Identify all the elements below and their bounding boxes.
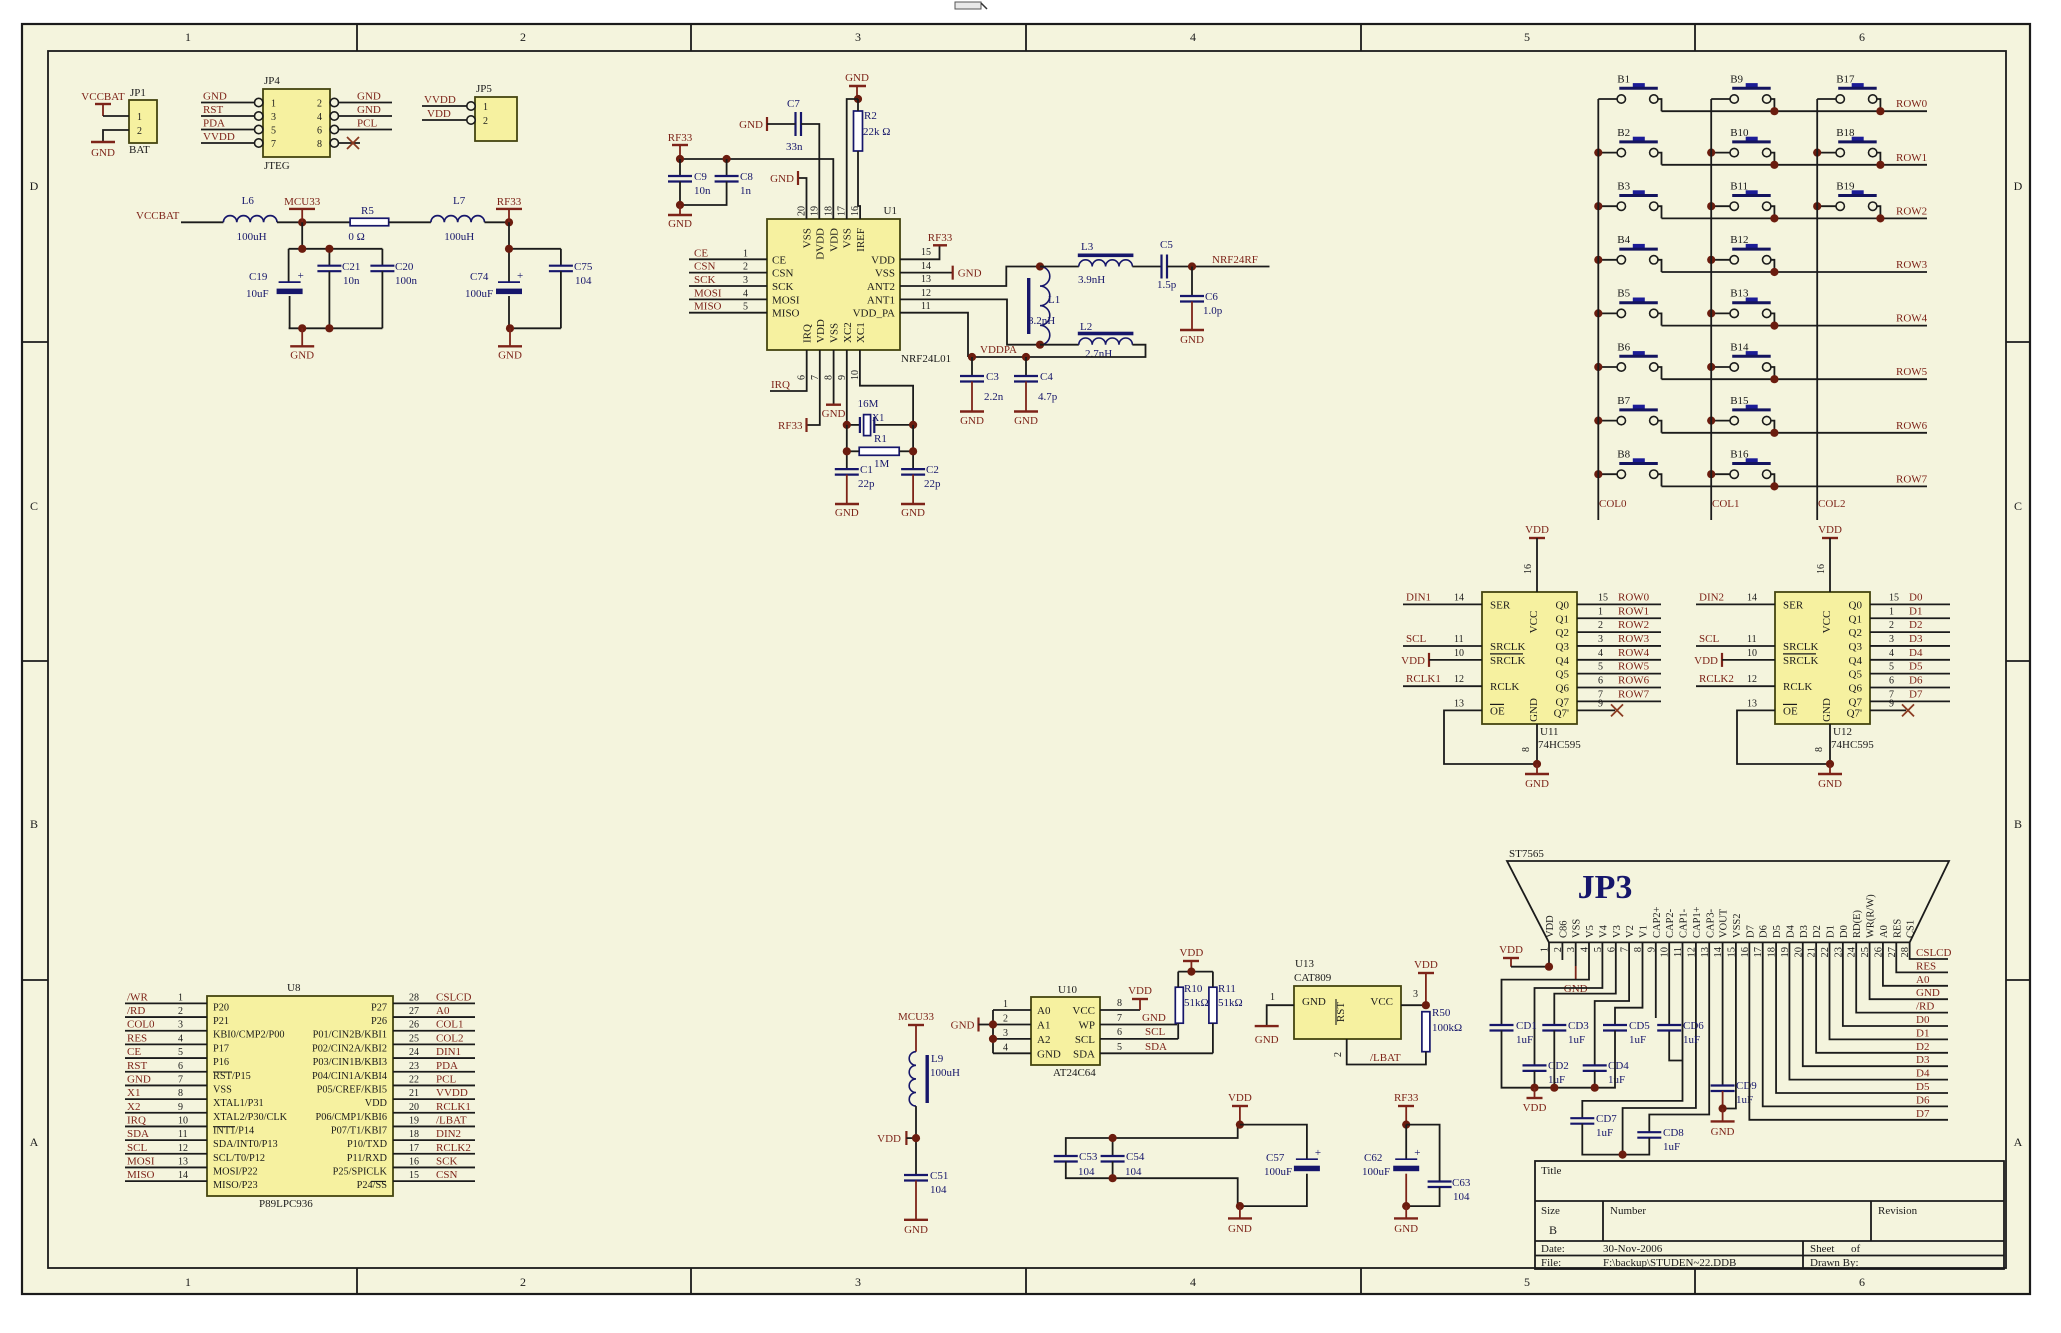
svg-text:A0: A0 (436, 1005, 450, 1017)
svg-text:RF33: RF33 (1394, 1092, 1419, 1104)
svg-text:VDD: VDD (1414, 959, 1438, 971)
capacitor C62 100uF (1362, 1147, 1420, 1178)
svg-text:SRCLK: SRCLK (1490, 641, 1526, 653)
svg-text:GND: GND (845, 72, 869, 84)
svg-text:104: 104 (1078, 1166, 1095, 1178)
wire L9 to C51 (915, 1106, 917, 1175)
wire C62 C63 bottoms (1406, 1187, 1439, 1206)
svg-text:14: 14 (1454, 592, 1464, 603)
svg-text:B1: B1 (1617, 73, 1630, 85)
svg-text:2: 2 (520, 1275, 526, 1289)
capacitor CD3 1uF (1542, 1020, 1589, 1046)
junction crystal right (909, 421, 917, 429)
IC U10 AT24C64 (1031, 984, 1100, 1079)
svg-text:CD5: CD5 (1629, 1020, 1650, 1032)
svg-text:SDA: SDA (1145, 1041, 1167, 1053)
wire ROW2 (1662, 217, 1928, 219)
net label RCLK2 at U12 pin12 (1696, 673, 1775, 686)
svg-text:SCL: SCL (1145, 1026, 1165, 1038)
net label DIN1 at U11 pin14 (1403, 591, 1482, 604)
svg-text:1: 1 (743, 248, 748, 259)
svg-text:JP3: JP3 (1578, 869, 1633, 906)
junction RF33 node (505, 218, 513, 226)
wire JP1 pin2 (103, 130, 129, 142)
svg-text:B9: B9 (1730, 73, 1743, 85)
power port MCU33 (284, 196, 321, 222)
svg-text:IRQ: IRQ (127, 1114, 146, 1126)
svg-text:COL0: COL0 (127, 1019, 155, 1031)
svg-text:GND: GND (127, 1073, 151, 1085)
wire JP3 pin14 to CD9 (1722, 942, 1724, 1085)
net label PCL U8 pin 22 (393, 1073, 475, 1085)
svg-text:PDA: PDA (203, 118, 225, 130)
svg-text:74HC595: 74HC595 (1538, 739, 1581, 751)
wire U11 Q7 to ROW7 (1577, 688, 1661, 701)
junction C6 top (1188, 262, 1196, 270)
capacitor CD7 1uF (1570, 1113, 1617, 1139)
svg-text:3: 3 (1598, 634, 1603, 645)
svg-text:14: 14 (1747, 592, 1757, 603)
svg-text:MISO: MISO (772, 308, 800, 320)
svg-text:F:\backup\STUDEN~22.DDB: F:\backup\STUDEN~22.DDB (1603, 1257, 1736, 1269)
svg-text:C57: C57 (1266, 1152, 1285, 1164)
svg-text:OE: OE (1783, 705, 1798, 717)
wire U1 pin9 XC2 to crystal (846, 350, 848, 425)
svg-text:6: 6 (1889, 676, 1894, 687)
svg-text:CSLCD: CSLCD (1916, 947, 1952, 959)
svg-text:CSLCD: CSLCD (436, 991, 472, 1003)
svg-text:1: 1 (1598, 606, 1603, 617)
wire RF33 cap bank (508, 222, 510, 282)
svg-text:3: 3 (1413, 989, 1418, 1000)
pushbutton B19 (1817, 181, 1880, 219)
svg-text:11: 11 (1747, 634, 1757, 645)
net label PDA at JP4 pin 5 (201, 118, 263, 134)
svg-text:17: 17 (409, 1143, 419, 1154)
svg-text:VOUT: VOUT (1719, 908, 1730, 938)
svg-text:COL1: COL1 (1712, 498, 1740, 510)
ground C62 block (1394, 1206, 1418, 1235)
svg-text:CAP2+: CAP2+ (1652, 906, 1663, 938)
wire CD7 CD8 bottom rail (1582, 1124, 1649, 1155)
wire MCU33 cap bank bottom rail (289, 296, 291, 328)
power port RF33 (496, 196, 522, 222)
IC U11 74HC595 (1482, 592, 1581, 752)
svg-text:U1: U1 (884, 205, 897, 217)
svg-text:C86: C86 (1558, 920, 1569, 938)
svg-text:C63: C63 (1452, 1177, 1471, 1189)
svg-text:13: 13 (1747, 698, 1757, 709)
svg-text:D: D (30, 179, 39, 193)
svg-text:VSS: VSS (842, 228, 854, 248)
svg-text:V1: V1 (1638, 925, 1649, 938)
svg-text:4: 4 (1190, 1275, 1196, 1289)
wire CD9 bottom (1722, 1091, 1724, 1109)
svg-text:OE: OE (1490, 705, 1505, 717)
wire JP3 pin5 to CD2 (1535, 942, 1603, 1065)
svg-text:10: 10 (1747, 648, 1757, 659)
svg-text:VDD: VDD (1525, 524, 1549, 536)
svg-text:11: 11 (921, 301, 931, 312)
svg-text:JTEG: JTEG (264, 160, 290, 172)
svg-text:GND: GND (1142, 1012, 1166, 1024)
net label SCL at U11 pin11 (1403, 633, 1482, 646)
svg-text:CD3: CD3 (1568, 1020, 1589, 1032)
capacitor C9 10n (668, 159, 711, 197)
svg-text:8: 8 (317, 139, 322, 150)
connector JP5 (475, 83, 517, 141)
svg-text:GND: GND (1014, 415, 1038, 427)
junction RF33 C62 (1402, 1121, 1410, 1129)
inductor L3 3.9nH (1078, 241, 1134, 286)
junction C54 top (1109, 1134, 1117, 1142)
svg-text:/RD: /RD (1916, 1001, 1934, 1013)
ground at U11 (1525, 764, 1549, 790)
svg-text:VDD: VDD (871, 254, 895, 266)
svg-text:100uH: 100uH (444, 231, 474, 243)
power port VDD at C57 (1228, 1092, 1252, 1125)
svg-text:Size: Size (1541, 1205, 1560, 1217)
svg-text:GND: GND (1528, 698, 1540, 722)
svg-text:28: 28 (409, 992, 419, 1003)
svg-text:GND: GND (835, 507, 859, 519)
net label D7 from JP3 pin 16 (1749, 942, 1948, 1119)
svg-text:VSS: VSS (1572, 919, 1583, 938)
wire JP3 pin6 to CD3 (1554, 942, 1616, 1025)
svg-text:XTAL1/P31: XTAL1/P31 (213, 1098, 264, 1109)
ground C4 (1014, 382, 1038, 428)
svg-text:9: 9 (1598, 698, 1603, 709)
wire U12 Q1 to D1 (1870, 605, 1950, 618)
junction ROW0 col2 (1876, 107, 1884, 115)
power port VDD at U12 pin16 (1816, 524, 1842, 592)
svg-text:P04/CIN1A/KBI4: P04/CIN1A/KBI4 (312, 1071, 387, 1082)
svg-text:ROW0: ROW0 (1896, 98, 1928, 110)
power port MCU33 at L9 (898, 1011, 935, 1052)
svg-text:P03/CIN1B/KBI3: P03/CIN1B/KBI3 (313, 1057, 387, 1068)
junction C8 top (723, 155, 731, 163)
svg-text:R10: R10 (1184, 983, 1203, 995)
svg-text:C: C (30, 499, 38, 513)
svg-text:25: 25 (409, 1033, 419, 1044)
resistor R5 0ohm (348, 205, 388, 243)
wire U12 Q7 to D7 (1870, 688, 1950, 701)
svg-text:100uH: 100uH (930, 1067, 960, 1079)
wire JP3 pin10 to CD6 (1668, 942, 1670, 1025)
svg-text:P21: P21 (213, 1016, 229, 1027)
wire U13 pin1 to ground (1267, 992, 1294, 1026)
svg-text:VDD: VDD (365, 1098, 388, 1109)
svg-text:18: 18 (409, 1129, 419, 1140)
svg-text:3.9nH: 3.9nH (1078, 274, 1105, 286)
net label D1 from JP3 pin 22 (1829, 942, 1948, 1039)
net label RST U8 pin 6 (125, 1060, 207, 1072)
ground at JP3 pin3 (1564, 942, 1588, 995)
wire U12 Q4 to D4 (1870, 647, 1950, 660)
svg-text:3: 3 (855, 30, 861, 44)
svg-text:51kΩ: 51kΩ (1218, 997, 1243, 1009)
svg-text:10: 10 (178, 1115, 188, 1126)
svg-text:C75: C75 (574, 261, 593, 273)
svg-text:104: 104 (575, 275, 592, 287)
IC U8 P89LPC936 (207, 982, 393, 1210)
net label SCL U8 pin 12 (125, 1142, 207, 1154)
junction ROW7 col1 (1770, 482, 1778, 490)
svg-text:27: 27 (409, 1006, 419, 1017)
wire JP3 pin13 to CD8 (1649, 942, 1709, 1132)
net label DIN1 U8 pin 24 (393, 1046, 475, 1058)
svg-text:CS1: CS1 (1906, 920, 1917, 938)
capacitor CD6 1uF (1657, 1020, 1704, 1046)
svg-text:4.7p: 4.7p (1038, 391, 1058, 403)
capacitor CD5 1uF (1603, 1020, 1650, 1046)
svg-text:RCLK: RCLK (1783, 681, 1812, 693)
U10 right pin numbers (1117, 998, 1122, 1053)
pushbutton B7 (1598, 395, 1661, 433)
junction ROW6 col1 (1770, 429, 1778, 437)
svg-text:CD6: CD6 (1683, 1020, 1704, 1032)
junction COL0 at B8 (1594, 470, 1602, 478)
junction U12 ground (1829, 724, 1831, 764)
svg-text:V5: V5 (1585, 925, 1596, 938)
capacitor C21 10n (317, 261, 360, 287)
svg-text:5: 5 (178, 1047, 183, 1058)
svg-text:WR(R/W): WR(R/W) (1866, 894, 1877, 938)
svg-text:33n: 33n (786, 141, 803, 153)
svg-text:GND: GND (739, 119, 763, 131)
svg-text:14: 14 (921, 261, 931, 272)
IC U13 CAT809 (1294, 958, 1401, 1039)
capacitor C7 33n (786, 98, 803, 153)
svg-text:L6: L6 (242, 195, 255, 207)
junction COL0 at B2 (1594, 149, 1602, 157)
capacitor C3 2.2n (960, 357, 1004, 403)
svg-text:GND: GND (1711, 1126, 1735, 1138)
svg-text:NRF24RF: NRF24RF (1212, 254, 1258, 266)
svg-text:C: C (2014, 499, 2022, 513)
svg-text:CE: CE (694, 247, 708, 259)
svg-text:CAP2-: CAP2- (1665, 908, 1676, 938)
svg-text:4: 4 (317, 112, 322, 123)
svg-text:CAT809: CAT809 (1294, 972, 1332, 984)
pushbutton B15 (1711, 395, 1774, 433)
svg-text:JP4: JP4 (264, 75, 280, 87)
svg-text:CD1: CD1 (1516, 1020, 1537, 1032)
power port RF33 at U1 pin7 (778, 350, 820, 432)
junction CD9 gnd (1719, 1104, 1727, 1112)
svg-text:D6: D6 (1759, 925, 1770, 938)
svg-text:MOSI: MOSI (772, 294, 800, 306)
svg-text:X2: X2 (127, 1101, 140, 1113)
svg-text:16: 16 (409, 1156, 419, 1167)
net label MOSI U8 pin 13 (125, 1155, 207, 1167)
svg-text:30-Nov-2006: 30-Nov-2006 (1603, 1243, 1663, 1255)
svg-text:P17: P17 (213, 1043, 229, 1054)
svg-text:Number: Number (1610, 1205, 1646, 1217)
svg-text:6: 6 (1598, 676, 1603, 687)
svg-text:Revision: Revision (1878, 1205, 1918, 1217)
svg-text:D6: D6 (1916, 1094, 1930, 1106)
svg-text:VDD: VDD (877, 1133, 901, 1145)
net label MISO U1 pin 5 (689, 301, 767, 313)
svg-text:U8: U8 (287, 982, 301, 994)
svg-text:V2: V2 (1625, 925, 1636, 938)
wire U12 Q6 to D6 (1870, 675, 1950, 688)
svg-text:/WR: /WR (127, 991, 148, 1003)
capacitor C8 1n (715, 159, 754, 197)
svg-text:P89LPC936: P89LPC936 (259, 1198, 313, 1210)
svg-text:0 Ω: 0 Ω (348, 231, 364, 243)
svg-text:1uF: 1uF (1629, 1034, 1646, 1046)
power port VDD left of C51 (877, 1131, 916, 1145)
crystal X1 16M (847, 398, 913, 436)
inductor L1 8.2nH (1027, 267, 1060, 345)
net label CSN U1 pin 2 (689, 261, 767, 273)
svg-text:1uF: 1uF (1568, 1034, 1585, 1046)
ground at U1 pin20 (770, 171, 806, 219)
svg-text:15: 15 (1889, 592, 1899, 603)
wire U12 Q5 to D5 (1870, 661, 1950, 674)
svg-text:VCC: VCC (1821, 611, 1833, 634)
svg-text:C51: C51 (930, 1170, 948, 1182)
svg-text:6: 6 (1859, 1275, 1865, 1289)
svg-text:ROW5: ROW5 (1896, 366, 1928, 378)
svg-text:10uF: 10uF (246, 288, 269, 300)
svg-text:GND: GND (1394, 1223, 1418, 1235)
junction COL1 at B16 (1707, 470, 1715, 478)
svg-text:Q0: Q0 (1849, 599, 1863, 611)
svg-text:2: 2 (1333, 1052, 1344, 1057)
svg-text:VDD: VDD (815, 319, 827, 343)
capacitor C20 100n (370, 261, 417, 287)
svg-text:VSS: VSS (829, 323, 841, 343)
svg-text:D2: D2 (1909, 619, 1922, 631)
svg-text:13: 13 (1454, 698, 1464, 709)
ground C57 block (1228, 1206, 1252, 1235)
svg-text:GND: GND (1821, 698, 1833, 722)
svg-text:VDD: VDD (1818, 524, 1842, 536)
net label D4 from JP3 pin 19 (1789, 942, 1948, 1079)
svg-text:+: + (1315, 1147, 1321, 1159)
capacitor C53 104 (1054, 1151, 1098, 1178)
svg-text:VCCBAT: VCCBAT (81, 91, 125, 103)
net label MOSI U1 pin 4 (689, 287, 767, 299)
svg-text:ROW3: ROW3 (1896, 259, 1928, 271)
svg-text:RF33: RF33 (778, 420, 803, 432)
power port VDD at U13 pin3 (1401, 959, 1438, 1005)
svg-text:1uF: 1uF (1516, 1034, 1533, 1046)
no-connect U12 pin9 (1870, 698, 1914, 716)
svg-text:16: 16 (1523, 564, 1534, 574)
ground C2 (901, 475, 925, 519)
U10 left pin numbers (993, 999, 1031, 1053)
power port VDD above R10 R11 (1178, 947, 1213, 987)
svg-text:PCL: PCL (357, 118, 377, 130)
junction VDD R10 R11 (1187, 968, 1195, 976)
junction C4 (1022, 353, 1030, 361)
net label /LBAT U8 pin 19 (393, 1114, 475, 1126)
svg-text:GND: GND (958, 268, 982, 280)
junction C54 bottom (1109, 1174, 1117, 1182)
svg-text:Q3: Q3 (1849, 641, 1863, 653)
svg-text:RF33: RF33 (668, 132, 693, 144)
svg-text:Q2: Q2 (1849, 627, 1862, 639)
wire JP3 pin9 stub (1655, 942, 1657, 1018)
wire C53 C54 bottoms (1066, 1162, 1240, 1207)
svg-text:SCK: SCK (772, 281, 793, 293)
svg-text:COL2: COL2 (436, 1032, 464, 1044)
svg-text:A: A (2014, 1135, 2023, 1149)
connector JP3 ST7565 outline (1507, 848, 1949, 942)
capacitor CD9 1uF (1711, 1080, 1758, 1106)
capacitor C19 10uF (246, 270, 304, 300)
net label X1 U8 pin 8 (125, 1087, 207, 1099)
svg-text:19: 19 (409, 1115, 419, 1126)
wire VCCBAT to L6 (181, 221, 223, 223)
svg-text:CD8: CD8 (1663, 1127, 1684, 1139)
wire U13 pin2 /LBAT (1333, 1039, 1426, 1065)
pushbutton B9 (1711, 73, 1774, 111)
svg-text:2: 2 (483, 116, 488, 127)
pushbutton B11 (1711, 181, 1774, 219)
svg-text:Q0: Q0 (1556, 599, 1570, 611)
svg-text:15: 15 (1598, 592, 1608, 603)
svg-text:RST: RST (203, 104, 223, 116)
ground at U10 address pins (951, 1018, 993, 1032)
net label GND at U10 pin7 (1100, 1012, 1177, 1025)
wire ROW3 (1662, 271, 1928, 273)
svg-text:A0: A0 (1916, 974, 1930, 986)
svg-text:RES: RES (1916, 960, 1936, 972)
net label IRQ U8 pin 10 (125, 1114, 207, 1126)
pushbutton B14 (1711, 341, 1774, 379)
U1 pin14 VSS to GND (900, 261, 982, 280)
connector JP4 (JTEG) (263, 75, 330, 172)
svg-text:B7: B7 (1617, 395, 1630, 407)
svg-text:SDA: SDA (127, 1128, 149, 1140)
svg-text:21: 21 (409, 1088, 419, 1099)
svg-text:2.7nH: 2.7nH (1085, 348, 1112, 360)
wire JP3 pin15 to CD9 gnd (1723, 942, 1736, 1108)
svg-text:RCLK1: RCLK1 (436, 1101, 471, 1113)
net label VVDD at JP5 pin1 (422, 94, 475, 110)
svg-text:P20: P20 (213, 1002, 229, 1013)
svg-text:1: 1 (1270, 992, 1275, 1003)
svg-text:DIN1: DIN1 (436, 1046, 461, 1058)
pushbutton B5 (1598, 288, 1661, 326)
svg-text:1: 1 (1003, 999, 1008, 1010)
net label CSN U8 pin 15 (393, 1169, 475, 1181)
svg-text:5: 5 (271, 126, 276, 137)
wire GND to U1 pin17 (847, 99, 858, 219)
svg-text:RF33: RF33 (928, 232, 953, 244)
svg-text:22: 22 (409, 1074, 419, 1085)
net label COL1 U8 pin 26 (393, 1019, 475, 1031)
svg-text:C20: C20 (395, 261, 414, 273)
svg-text:Q5: Q5 (1849, 669, 1863, 681)
wire U12 pin13 OE to ground (1737, 698, 1830, 764)
svg-text:MOSI: MOSI (127, 1155, 155, 1167)
wire R2 to U1 pin16 (857, 99, 859, 111)
svg-text:ROW7: ROW7 (1896, 473, 1928, 485)
net label GND right side JP4 (330, 91, 392, 107)
junction C9 top (676, 155, 684, 163)
svg-text:VDD: VDD (1401, 655, 1425, 667)
svg-text:VSS: VSS (875, 268, 895, 280)
svg-text:Drawn By:: Drawn By: (1810, 1257, 1859, 1269)
svg-text:GND: GND (357, 91, 381, 103)
svg-text:VDD: VDD (1523, 1102, 1547, 1114)
